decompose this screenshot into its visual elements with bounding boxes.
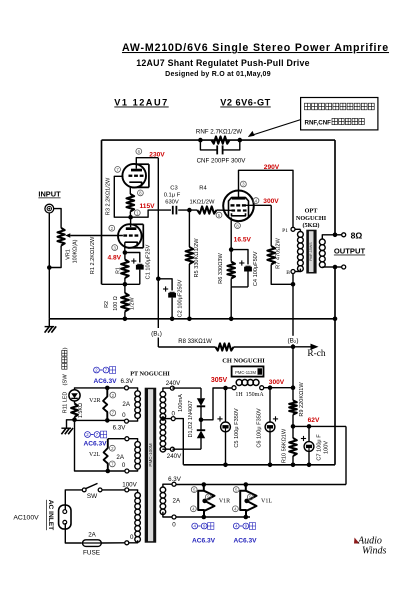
wire V2L top to terminal bbox=[108, 438, 125, 440]
potentiometer VR1 100Kohm(A) bbox=[58, 228, 79, 264]
terminal 240V top bbox=[170, 386, 174, 390]
resistor R6 330ohm 3W bbox=[218, 250, 235, 287]
heater V1L bbox=[240, 485, 256, 518]
junction R10 ground bbox=[291, 463, 296, 468]
svg-text:2A: 2A bbox=[116, 454, 124, 461]
wire node1 to C3 bbox=[131, 210, 171, 217]
PT 6.3V 2A winding V1 heaters bbox=[160, 487, 166, 515]
svg-text:(5KΩ): (5KΩ) bbox=[303, 222, 320, 229]
svg-text:100 Ω: 100 Ω bbox=[113, 296, 119, 311]
svg-text:62V: 62V bbox=[308, 417, 320, 424]
svg-text:100V: 100V bbox=[122, 482, 137, 489]
svg-text:R9 220KΩ1W: R9 220KΩ1W bbox=[299, 382, 305, 417]
wire 6V6 cathode down bbox=[230, 217, 232, 249]
capacitor CNF 200PF 300V bbox=[197, 140, 247, 164]
svg-text:4.8V: 4.8V bbox=[108, 254, 122, 261]
heater V2R (12AU7 pins 2-7) bbox=[103, 388, 107, 421]
svg-text:R5 330KΩ1/2W: R5 330KΩ1/2W bbox=[194, 238, 200, 278]
junction choke out / C6 bbox=[268, 385, 273, 390]
wire NFB to cathode R1 bottom bbox=[102, 283, 140, 285]
junction R2 ground rail bbox=[123, 317, 128, 322]
svg-text:305V: 305V bbox=[211, 377, 228, 384]
pin 8 label (cathode) bbox=[235, 223, 241, 229]
resistor R11 1.5K bbox=[71, 401, 84, 420]
svg-text:AC6.3V: AC6.3V bbox=[93, 378, 117, 385]
svg-text:(B₂): (B₂) bbox=[288, 338, 299, 345]
PT winding 6.3V V2R heaters bbox=[135, 391, 141, 419]
terminal V2L 0 bottom bbox=[125, 469, 129, 473]
wire heater bottom 0 bus bbox=[176, 516, 250, 518]
wire output ground bus bbox=[334, 267, 336, 465]
triode V1b (12AU7 half, pins 6,7,8) bbox=[122, 164, 149, 188]
svg-text:V2R: V2R bbox=[89, 398, 100, 404]
wire V1b plate to B1 line bbox=[136, 158, 158, 169]
svg-text:R1: R1 bbox=[116, 267, 122, 274]
resistor R5 330K 1/2W bbox=[186, 210, 200, 319]
arrow R-ch bbox=[293, 346, 314, 348]
svg-text:100KΩ(A): 100KΩ(A) bbox=[72, 239, 78, 263]
junction R6 ground bbox=[229, 317, 234, 322]
terminal B bbox=[291, 270, 295, 274]
svg-text:NOGUCHI: NOGUCHI bbox=[296, 215, 327, 222]
output transformer OPT NOGUCHI 5K bbox=[296, 208, 327, 230]
pin 4 label (screen) bbox=[253, 198, 259, 204]
wire jack to VR1 top bbox=[54, 209, 61, 228]
wire 62V to heater bias bbox=[345, 426, 347, 484]
wire center tap to 0V rail bbox=[175, 419, 183, 465]
svg-text:R6 330Ω3W: R6 330Ω3W bbox=[218, 252, 224, 283]
wire R6 to ground rail bbox=[230, 287, 232, 319]
svg-text:SW: SW bbox=[87, 493, 98, 500]
PT winding 6.3V V2L heaters bbox=[135, 442, 141, 470]
svg-text:(B₁): (B₁) bbox=[151, 330, 162, 337]
wire R4 to 6V6 grid bbox=[217, 209, 234, 211]
junction C2 tap bbox=[156, 277, 161, 282]
svg-text:2A: 2A bbox=[122, 401, 130, 408]
choke CH NOGUCHI 1H 150mA bbox=[222, 358, 265, 399]
label 2-7 AC6.3V second blue bbox=[83, 431, 107, 447]
svg-text:C4 100μF50V: C4 100μF50V bbox=[253, 251, 259, 286]
junction cathode V1a bbox=[123, 250, 128, 255]
svg-text:AC6.3V: AC6.3V bbox=[192, 538, 216, 545]
svg-text:VR1: VR1 bbox=[65, 249, 71, 260]
note box (Japanese): RNF CNF not needed if no NFB bbox=[301, 98, 378, 130]
terminal 0 V1 bbox=[172, 515, 176, 519]
wire bottom 0V rail bbox=[183, 464, 335, 466]
svg-text:630V: 630V bbox=[165, 200, 179, 206]
svg-text:115V: 115V bbox=[139, 203, 155, 210]
svg-text:6.3V: 6.3V bbox=[121, 378, 135, 385]
node 1 junction 115V bbox=[128, 215, 133, 220]
capacitor C1 100uF 25V bbox=[125, 244, 152, 284]
capacitor C5 100uF 350V bbox=[217, 388, 240, 465]
terminal 8ohm output top bbox=[335, 234, 342, 236]
capacitor C4 100uF 50V bbox=[231, 250, 259, 287]
pin 2 label bbox=[109, 225, 115, 231]
svg-text:AC6.3V: AC6.3V bbox=[233, 538, 257, 545]
svg-text:12AU7 Shant Regulatet Push-Pul: 12AU7 Shant Regulatet Push-Pull Drive bbox=[136, 58, 310, 68]
terminal choke right bbox=[260, 386, 264, 390]
junction C6 ground bbox=[268, 463, 273, 468]
resistor R2 100ohm 1/2W bbox=[104, 284, 136, 319]
resistor R1 2.2K 1/2W (cathode) bbox=[90, 236, 129, 284]
wire heater top 6.3V bus bbox=[176, 484, 346, 486]
junction ground bus bbox=[333, 317, 338, 322]
svg-text:300V: 300V bbox=[269, 379, 285, 386]
svg-text:0: 0 bbox=[130, 534, 134, 541]
wire NFB left vertical bbox=[101, 140, 103, 284]
svg-text:OPT: OPT bbox=[305, 208, 319, 215]
junction C5 ground bbox=[223, 463, 228, 468]
wire R8 to B2 bbox=[234, 346, 294, 348]
svg-text:1KΩ1/2W: 1KΩ1/2W bbox=[190, 200, 215, 206]
junction C2 ground bbox=[170, 317, 175, 322]
terminal 100V bbox=[125, 488, 129, 492]
junction R7 B bbox=[291, 282, 296, 287]
svg-text:R1 2.2KΩ1/2W: R1 2.2KΩ1/2W bbox=[90, 236, 96, 274]
wire VR1 bottom to ground line bbox=[49, 246, 61, 268]
label (B2) bbox=[283, 336, 303, 344]
wire B1 supply vertical bbox=[157, 158, 159, 328]
junction RNF left bbox=[198, 138, 203, 143]
svg-text:OUTPUT: OUTPUT bbox=[334, 247, 366, 256]
resistor RNF 2.7Kohm 1/2W bbox=[196, 129, 242, 144]
svg-text:8Ω: 8Ω bbox=[351, 231, 363, 241]
pin 7 label bbox=[115, 167, 121, 173]
pin 3 label (plate) bbox=[241, 181, 247, 187]
junction C5 top bbox=[223, 386, 228, 391]
wire inlet to SW bbox=[65, 490, 82, 511]
wire B1 to R8 bbox=[158, 346, 215, 348]
terminal 6.3V top bbox=[125, 386, 129, 390]
svg-text:V1R: V1R bbox=[219, 498, 230, 504]
terminal 0 center tap bbox=[171, 417, 175, 421]
wire C3 to R4 bbox=[178, 209, 197, 211]
svg-text:1.5KΩ: 1.5KΩ bbox=[78, 403, 84, 418]
svg-text:RNF 2.7KΩ1/2W: RNF 2.7KΩ1/2W bbox=[196, 129, 242, 136]
svg-text:AC100V: AC100V bbox=[13, 515, 39, 522]
svg-text:AC INLET: AC INLET bbox=[47, 500, 54, 530]
triode V1a (12AU7 half, pins 1,2,3) bbox=[118, 224, 143, 248]
wire rectifier to 305V bbox=[201, 388, 232, 420]
svg-text:PMC-113M: PMC-113M bbox=[235, 370, 256, 375]
svg-text:V1 12AU7: V1 12AU7 bbox=[114, 98, 168, 108]
wire SW to PT 100V bbox=[102, 489, 125, 491]
svg-text:0: 0 bbox=[172, 522, 176, 529]
junction V2R heater top bbox=[105, 386, 110, 391]
ground symbol input bbox=[45, 319, 57, 333]
svg-text:R11 LED: R11 LED bbox=[62, 392, 68, 414]
svg-text:R-ch: R-ch bbox=[307, 349, 326, 359]
svg-text:C5 100μ F350V: C5 100μ F350V bbox=[234, 408, 240, 448]
svg-text:240V: 240V bbox=[166, 380, 181, 387]
svg-text:2A: 2A bbox=[88, 531, 96, 538]
terminal output bottom bbox=[335, 266, 342, 268]
junction rectifier out bbox=[199, 418, 204, 423]
terminal choke left bbox=[232, 386, 236, 390]
terminal V2L 6.3V top bbox=[125, 437, 129, 441]
wire V1b grid to node 1 bbox=[114, 176, 130, 217]
resistor R8 33K 1W bbox=[178, 339, 233, 351]
junction V2L heater bottom bbox=[106, 469, 111, 474]
svg-text:1/2W: 1/2W bbox=[130, 297, 136, 310]
svg-text:R8 33KΩ1W: R8 33KΩ1W bbox=[178, 339, 212, 345]
label 4-9 AC6.3V V1R blue bbox=[192, 523, 216, 545]
svg-text:R3 2.2KΩ1/2W: R3 2.2KΩ1/2W bbox=[106, 177, 112, 215]
wire choke right to B2 bbox=[264, 387, 293, 389]
pin 1 label bbox=[134, 210, 140, 216]
svg-text:PMF-15WS: PMF-15WS bbox=[309, 242, 313, 261]
wire main ground rail bbox=[49, 318, 335, 320]
svg-text:RNF,CNF: RNF,CNF bbox=[305, 120, 332, 127]
wire 6V6 screen to R7 bbox=[244, 204, 272, 206]
terminal 0V primary bbox=[125, 541, 129, 545]
terminal 6.3V V1 bbox=[172, 482, 176, 486]
terminal 6.3V bottom bbox=[125, 419, 129, 423]
svg-text:CNF 200PF 300V: CNF 200PF 300V bbox=[197, 157, 247, 164]
wire plate V1a to node 1 bbox=[130, 217, 132, 227]
wire V2L bottom return to V2R bbox=[75, 420, 125, 471]
junction 62V node bbox=[291, 424, 296, 429]
terminal P1 bbox=[291, 227, 295, 231]
wire OPT B to B2 line bbox=[292, 274, 294, 285]
label 2-7 AC6.3V top blue bbox=[93, 367, 134, 386]
svg-text:Designed by R.O at 01,May,09: Designed by R.O at 01,May,09 bbox=[165, 71, 271, 78]
pin 5 label (grid) bbox=[216, 212, 222, 218]
junction R11 bottom bbox=[72, 418, 77, 423]
OPT primary winding bbox=[295, 229, 303, 271]
svg-text:16.5V: 16.5V bbox=[234, 236, 252, 243]
svg-text:0: 0 bbox=[122, 412, 126, 419]
pin 6 label bbox=[136, 148, 142, 154]
diode D2 1N4007 bbox=[172, 400, 205, 449]
input jack J1 bbox=[38, 190, 61, 214]
svg-text:PMC-100M: PMC-100M bbox=[148, 443, 153, 466]
capacitor C3 0.1uF 630V bbox=[164, 186, 181, 215]
svg-text:100mA: 100mA bbox=[178, 394, 184, 412]
switch SW bbox=[82, 483, 102, 499]
OPT secondary winding bbox=[319, 235, 335, 268]
svg-text:V2 6V6-GT: V2 6V6-GT bbox=[220, 98, 270, 108]
resistor R4 1K 1/2W bbox=[190, 186, 217, 214]
svg-text:R10 56KΩ1W: R10 56KΩ1W bbox=[281, 428, 287, 463]
resistor R10 56K 1W bbox=[281, 426, 297, 464]
svg-text:R7 470Ω2W: R7 470Ω2W bbox=[275, 237, 281, 268]
note arrow bbox=[251, 120, 301, 136]
capacitor C2 100uF 250V bbox=[158, 279, 183, 319]
svg-text:C6 100μ F350V: C6 100μ F350V bbox=[257, 408, 263, 448]
svg-text:AW-M210D/6V6 Single Stereo Pow: AW-M210D/6V6 Single Stereo Power Amprifi… bbox=[122, 42, 389, 54]
svg-text:C7 100μ F: C7 100μ F bbox=[316, 434, 322, 461]
junction R5 top bbox=[187, 208, 192, 213]
svg-text:R4: R4 bbox=[199, 186, 207, 192]
svg-text:0: 0 bbox=[122, 462, 126, 469]
resistor R7 470ohm 2W bbox=[267, 205, 293, 284]
svg-text:R2: R2 bbox=[104, 301, 110, 308]
svg-text:(SW: (SW bbox=[62, 374, 68, 386]
terminal 240V bottom bbox=[170, 447, 174, 451]
title block bbox=[122, 42, 389, 78]
svg-text:1H 150mA: 1H 150mA bbox=[235, 392, 264, 398]
svg-text:6.3V: 6.3V bbox=[168, 476, 182, 483]
PT HV winding 240-0-240 bbox=[160, 391, 166, 452]
svg-text:Winds: Winds bbox=[362, 546, 387, 557]
wire VR1 wiper to V1a grid bbox=[70, 235, 123, 237]
ground symbol LED bbox=[61, 420, 74, 434]
LED pilot lamp bbox=[62, 390, 80, 413]
junction RNF right bbox=[238, 138, 243, 143]
svg-text:PT NOGUCHI: PT NOGUCHI bbox=[130, 371, 170, 378]
svg-text:100V: 100V bbox=[323, 441, 329, 454]
junction output bottom bbox=[333, 265, 338, 270]
svg-text:INPUT: INPUT bbox=[38, 190, 61, 199]
pentode V2 6V6-GT bbox=[223, 191, 254, 222]
wire NFB from output to top rail bbox=[334, 140, 336, 235]
svg-text:240V: 240V bbox=[167, 453, 182, 460]
svg-text:C2 100μF250V: C2 100μF250V bbox=[178, 279, 184, 317]
svg-text:0.1μ F: 0.1μ F bbox=[164, 193, 181, 199]
capacitor C6 100uF 350V bbox=[257, 388, 278, 465]
svg-text:P1: P1 bbox=[282, 228, 288, 234]
wire inlet to fuse bbox=[65, 523, 81, 543]
wire fuse to PT 0 bbox=[101, 542, 125, 544]
svg-text:AC6.3V: AC6.3V bbox=[83, 440, 107, 447]
svg-text:V1L: V1L bbox=[261, 498, 272, 504]
junction output top bbox=[333, 233, 338, 238]
pin 3 label bbox=[112, 245, 118, 251]
heater V2L bbox=[104, 439, 108, 471]
label 4-9 AC6.3V V1L blue bbox=[233, 523, 257, 545]
pin 8 label bbox=[138, 190, 144, 196]
label SW built-in vertical bbox=[62, 374, 68, 386]
svg-text:B: B bbox=[286, 270, 290, 276]
svg-text:FUSE: FUSE bbox=[83, 549, 100, 556]
svg-text:CH NOGUCHI: CH NOGUCHI bbox=[222, 358, 265, 365]
junction B2 node bbox=[291, 345, 296, 350]
capacitor C7 100uF 100V bbox=[293, 424, 346, 467]
svg-text:V2L: V2L bbox=[89, 452, 100, 458]
wire cathode V1a down bbox=[124, 242, 126, 252]
svg-text:C1 100μF25V: C1 100μF25V bbox=[146, 244, 152, 279]
svg-text:D1,D2 1N4007: D1,D2 1N4007 bbox=[188, 400, 194, 437]
AC inlet connector bbox=[59, 505, 71, 529]
PT primary 100V winding bbox=[135, 493, 141, 543]
svg-text:C3: C3 bbox=[170, 186, 177, 192]
junction B2 choke bbox=[291, 385, 296, 390]
wire 6V6 plate to OPT P1 bbox=[239, 170, 294, 227]
junction V2R heater bottom bbox=[105, 418, 110, 423]
svg-text:2A: 2A bbox=[173, 498, 181, 505]
junction R1 bottom NFB bbox=[123, 282, 128, 287]
wire LED top to 6.3V bbox=[75, 388, 125, 390]
svg-text:300V: 300V bbox=[263, 198, 279, 205]
heater V1R (pins 4,5,9) bbox=[198, 485, 214, 518]
wire B2 vertical bbox=[292, 284, 294, 388]
svg-text:): ) bbox=[62, 347, 68, 349]
resistor R3 2.2K 1/2W bbox=[106, 177, 135, 217]
OPT core bbox=[306, 230, 316, 274]
wire jack ground down bbox=[48, 213, 50, 319]
wire V2R heater bottom bbox=[75, 419, 125, 421]
junction R5 ground bbox=[187, 317, 192, 322]
junction cathode 6V6 bbox=[229, 247, 234, 252]
svg-text:6.3V: 6.3V bbox=[113, 425, 127, 432]
junction VR1 ground bbox=[47, 265, 52, 270]
fuse FUSE 2A bbox=[81, 531, 102, 556]
svg-text:0: 0 bbox=[172, 411, 176, 418]
Audio Winds logo bbox=[354, 536, 387, 557]
resistor R9 220K 1W bbox=[289, 382, 305, 427]
wire top NFB rail bbox=[102, 139, 336, 141]
diode D1 1N4007 bbox=[172, 388, 205, 420]
